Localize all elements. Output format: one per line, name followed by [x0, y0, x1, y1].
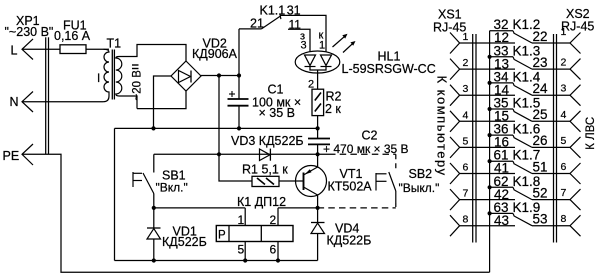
svg-text:L-59SRSGW-CC: L-59SRSGW-CC: [342, 62, 436, 76]
C1 plus sign: [229, 93, 235, 95]
junction rail / pin 6: [276, 258, 280, 262]
svg-text:3: 3: [561, 83, 567, 95]
junction bus / stub 33: [488, 55, 492, 59]
XP1 pin PE prongs: [22, 144, 33, 165]
svg-text:К1 ДП12: К1 ДП12: [237, 195, 286, 209]
XS1 boundary double line 1: [472, 34, 474, 243]
wire K1.1 11 to HL1 green anode: [288, 29, 310, 51]
svg-text:43: 43: [494, 213, 509, 228]
wire VD4 top lead: [317, 208, 319, 223]
svg-text:8: 8: [561, 213, 567, 225]
svg-text:R1 5,1 к: R1 5,1 к: [242, 162, 288, 176]
K1.6 NC stub 36: [490, 134, 513, 136]
svg-text:К ЛВС: К ЛВС: [585, 117, 597, 150]
svg-text:C1: C1: [268, 82, 284, 96]
junction bus / stub 63: [488, 211, 492, 215]
wire K1 pin 5 lead: [244, 242, 246, 261]
svg-text:6: 6: [561, 161, 567, 173]
wire VT1 collector down: [317, 195, 319, 208]
wire contact to XS2 pin 7: [532, 199, 570, 201]
svg-text:51: 51: [533, 159, 548, 174]
K1.9 blade: [514, 216, 532, 226]
svg-text:КД522Б: КД522Б: [327, 233, 372, 247]
svg-text:3: 3: [463, 83, 469, 95]
junction feed rail / R1 branch: [217, 152, 221, 156]
wire R2 bottom lead: [317, 116, 319, 129]
relay contact K1.7 group: [450, 148, 581, 184]
relay contact K1.8 group: [450, 174, 581, 210]
K1.7 blade: [514, 164, 532, 174]
wire plus rail: [201, 75, 239, 77]
wire T1 secondary top to bridge: [119, 45, 186, 62]
svg-text:2: 2: [463, 57, 469, 69]
wire T1 secondary bottom to bridge: [137, 91, 186, 109]
svg-text:RJ-45: RJ-45: [433, 21, 466, 35]
capacitor C2: [308, 138, 330, 140]
T1 secondary winding II: [116, 57, 137, 109]
wire zero rail: [115, 127, 318, 129]
wire K1 pin 2 lead: [277, 208, 279, 226]
svg-text:Р: Р: [218, 230, 226, 242]
K1 box divider 2: [260, 226, 262, 242]
svg-text:2 к: 2 к: [325, 102, 341, 116]
K1.8 blade: [514, 190, 532, 200]
svg-text:XS1: XS1: [438, 7, 462, 21]
svg-text:"Выкл.": "Выкл.": [399, 181, 440, 195]
svg-text:PE: PE: [3, 149, 20, 163]
svg-text:6: 6: [270, 243, 277, 257]
T1 winding II mark stroke 1: [132, 64, 139, 66]
svg-text:N: N: [10, 95, 19, 109]
K1.9 NC stub 63: [490, 212, 513, 214]
R2 rating slash 1: [315, 93, 321, 101]
XS2 pin 6: [570, 163, 581, 184]
VT1 collector: [304, 187, 318, 195]
wire XS1 pin 8 to contact: [460, 225, 515, 227]
HL1 red LED chip: [321, 55, 332, 66]
XP1 boundary double line 1: [45, 37, 47, 154]
K1.1 contact 31 tick: [279, 15, 282, 20]
svg-text:7: 7: [561, 187, 567, 199]
SB2 cap stroke 2: [376, 180, 387, 182]
wire K1.1 common 21: [239, 28, 262, 30]
wire XS1 pin 5 to contact: [460, 146, 515, 148]
SB1 cap bar: [132, 172, 134, 187]
svg-text:~20 В: ~20 В: [132, 70, 144, 101]
svg-text:3: 3: [301, 40, 307, 52]
capacitor C1: [228, 98, 249, 100]
svg-text:VD3 КД522Б: VD3 КД522Б: [231, 134, 304, 148]
wire VT1 emitter up: [317, 154, 319, 167]
wire K1.1 31 to HL1 red anode: [280, 15, 326, 51]
XS1 pin 1: [450, 33, 460, 54]
wire FU1 to T1 primary: [86, 48, 109, 50]
svg-text:22: 22: [533, 29, 548, 44]
svg-text:53: 53: [533, 212, 548, 227]
wire contact to XS2 pin 1: [532, 42, 570, 44]
wire K1 pin 2 to VT1 collector: [278, 207, 318, 209]
VT1 emitter with arrow: [304, 167, 318, 175]
VT1 base bar: [303, 173, 305, 191]
svg-text:T1: T1: [107, 36, 122, 50]
K1.8 NC stub 62: [490, 186, 513, 188]
wire contact to XS2 pin 6: [532, 173, 570, 175]
wire to K1 coil pin 1: [154, 207, 245, 209]
XS2 boundary double line 2: [556, 34, 558, 243]
wire VD1 top lead: [153, 208, 155, 228]
svg-text:5: 5: [238, 243, 245, 257]
relay contact K1.2 group: [450, 17, 581, 53]
XS2 pin 8: [570, 215, 581, 236]
svg-text:4: 4: [561, 109, 567, 121]
SB2 cap stroke 1: [376, 173, 387, 175]
relay contact K1.9 group: [450, 200, 581, 236]
K1.5 NC stub 35: [490, 108, 513, 110]
LED HL1 dual: [295, 51, 340, 73]
svg-text:1: 1: [463, 31, 469, 43]
wire contact to XS2 pin 4: [532, 120, 570, 122]
svg-text:КТ502А: КТ502А: [328, 180, 373, 194]
XP1 pin L prongs: [22, 39, 33, 60]
svg-text:23: 23: [533, 55, 548, 70]
ground bus of NC contacts: [489, 31, 491, 273]
XS2 pin 2: [570, 59, 581, 80]
wire contact to XS2 pin 5: [532, 146, 570, 148]
K1.2 blade: [514, 33, 532, 43]
XP1 pin N prongs: [22, 92, 33, 113]
XS2 pin 3: [570, 85, 581, 106]
svg-text:2: 2: [561, 57, 567, 69]
junction bus / stub 34: [488, 81, 492, 85]
junction bus / stub 62: [488, 185, 492, 189]
SB2 bottom terminal: [395, 191, 397, 203]
wire K1 pin 1 lead: [244, 208, 246, 226]
wire to K1.1 common: [238, 29, 240, 76]
XS2 pin 7: [570, 189, 581, 210]
svg-text:C2: C2: [362, 129, 378, 143]
svg-text:8: 8: [463, 214, 469, 226]
junction SB1 VD1 coil: [152, 206, 156, 210]
relay contact K1.3 group: [450, 43, 581, 79]
junction rail / VD1: [152, 258, 156, 262]
svg-text:7: 7: [463, 188, 469, 200]
wire VD4 bottom lead: [317, 234, 319, 261]
K1.3 NC stub 33: [490, 56, 513, 58]
wire HL1 pin 2 to R2: [317, 70, 319, 89]
wire SB1 top lead: [153, 154, 155, 172]
svg-text:L: L: [11, 44, 18, 58]
XS2 boundary double line 1: [553, 34, 555, 243]
junction zero rail / R2 C2: [316, 126, 320, 130]
R1 rating slash 2: [266, 178, 274, 185]
XS1 pin 6: [450, 163, 460, 184]
junction bus / stub 61: [488, 159, 492, 163]
wire branch to R1: [219, 154, 252, 181]
svg-text:КД906А: КД906А: [192, 47, 238, 61]
svg-text:5: 5: [561, 135, 567, 147]
svg-text:"Вкл.": "Вкл.": [156, 181, 188, 195]
R2 rating slash 2: [315, 104, 321, 112]
wire C2 bottom lead: [317, 144, 319, 154]
svg-text:R2: R2: [326, 89, 342, 103]
transistor VT1: [296, 166, 327, 197]
K1.4 NC stub 34: [490, 82, 513, 84]
XS1 boundary double line 2: [475, 34, 477, 243]
wire C2 top lead: [317, 128, 319, 138]
dashed wire SB2 return: [318, 207, 396, 209]
junction rail / pin 5: [243, 258, 247, 262]
fuse FU1: [60, 45, 86, 54]
XS2 pin 4: [570, 111, 581, 132]
XS1 pin 5: [450, 137, 460, 158]
wire SB1 bottom lead: [153, 194, 155, 208]
wire XS1 pin 6 to contact: [460, 173, 515, 175]
resistor R1: [252, 176, 279, 186]
wire PE bottom rail: [22, 154, 490, 272]
svg-text:6: 6: [463, 162, 469, 174]
wire bridge minus to rail: [154, 76, 172, 128]
wire plus feed rail: [154, 153, 329, 155]
wire R1 to VT1 base: [279, 180, 304, 182]
XS2 pin 5: [570, 137, 581, 158]
XS1 pin 2: [450, 59, 460, 80]
relay K1 coil box: [216, 226, 293, 242]
svg-text:"~230 В": "~230 В": [5, 25, 54, 39]
wire C1 top lead: [238, 76, 240, 100]
junction zero rail / bridge minus: [151, 126, 155, 130]
svg-text:1: 1: [561, 26, 567, 38]
K1.2 NC stub 32: [490, 30, 513, 32]
resistor R2: [312, 89, 324, 115]
wire N to T1 primary: [22, 101, 104, 103]
K1.5 blade: [514, 112, 532, 122]
wire L to FU1: [22, 48, 60, 50]
wire VD1 bottom lead: [153, 239, 155, 261]
relay contact K1.4 group: [450, 69, 581, 105]
junction collector VD4 SB2: [316, 206, 320, 210]
K1 box divider 1: [228, 226, 230, 242]
XS2 pin 1: [570, 33, 581, 54]
T1 winding II mark stroke 2: [132, 68, 139, 70]
wire contact to XS2 pin 2: [532, 68, 570, 70]
relay contact K1.5 group: [450, 96, 581, 132]
junction plus rail / feed: [217, 73, 221, 77]
K1.1 blade: [262, 16, 281, 29]
dashed SB2 bottom lead: [395, 203, 397, 208]
wire contact to XS2 pin 3: [532, 94, 570, 96]
wire XS1 pin 2 to contact: [460, 68, 515, 70]
relay contact K1.6 group: [450, 122, 581, 158]
SB1 cap stroke 1: [133, 172, 142, 174]
diode VD3: [260, 149, 271, 161]
junction bus / stub 36: [488, 133, 492, 137]
svg-text:SB2: SB2: [409, 167, 433, 181]
svg-text:1: 1: [319, 40, 325, 52]
XP1 boundary double line 2: [48, 37, 50, 154]
VD2 inner diode symbol: [179, 71, 191, 83]
SB1 cap stroke 2: [133, 180, 142, 182]
wire XS1 pin 4 to contact: [460, 120, 515, 122]
svg-text:52: 52: [533, 185, 548, 200]
T1 core line 1: [111, 50, 113, 100]
T1 core line 2: [113, 50, 115, 100]
junction feed rail / C2 VT1: [316, 152, 320, 156]
diode VD1: [147, 227, 161, 229]
SB1 blade: [143, 173, 154, 194]
R1 rating slash 1: [257, 178, 265, 185]
junction zero rail / C1: [237, 126, 241, 130]
XS1 pin 8: [450, 215, 460, 236]
K1.3 blade: [514, 60, 532, 70]
XS1 pin 7: [450, 189, 460, 210]
dashed wire to SB2 top: [329, 153, 396, 155]
HL1 light arrows: [333, 35, 347, 47]
HL1 common cathode join: [310, 67, 326, 71]
wire left branch down: [114, 128, 116, 260]
XS1 pin 4: [450, 111, 460, 132]
svg-text:К компьютеру: К компьютеру: [434, 76, 449, 177]
wire contact to XS2 pin 8: [532, 225, 570, 227]
junction plus rail / C1: [237, 73, 241, 77]
svg-text:5: 5: [463, 135, 469, 147]
wire plus down branch: [218, 76, 220, 155]
wire K1 pin 6 lead: [277, 242, 279, 261]
diode VD4: [311, 222, 325, 224]
wire C1 bottom lead: [238, 106, 240, 129]
wire XS1 pin 7 to contact: [460, 199, 515, 201]
HL1 green LED chip: [305, 55, 316, 66]
wire XS1 pin 3 to contact: [460, 94, 515, 96]
svg-text:0,16 А: 0,16 А: [54, 29, 91, 43]
SB2 blade: [389, 172, 396, 191]
svg-text:4: 4: [463, 109, 469, 121]
K1.6 blade: [514, 138, 532, 148]
K1.7 NC stub 61: [490, 160, 513, 162]
wire bottom common rail: [115, 260, 318, 262]
svg-text:26: 26: [533, 133, 548, 148]
junction bus / stub 35: [488, 107, 492, 111]
XS1 pin 3: [450, 85, 460, 106]
dashed SB2 top lead: [395, 154, 397, 170]
svg-text:25: 25: [533, 107, 548, 122]
wire XS1 pin 1 to contact: [460, 42, 515, 44]
svg-text:КД522Б: КД522Б: [162, 235, 207, 249]
K1.4 blade: [514, 86, 532, 96]
bridge VD2 diamond: [171, 61, 201, 91]
svg-text:24: 24: [533, 81, 549, 96]
svg-text:× 35 В: × 35 В: [259, 106, 296, 120]
T1 primary winding I: [104, 49, 110, 101]
SB2 cap bar: [375, 173, 377, 191]
svg-text:I: I: [97, 73, 100, 85]
